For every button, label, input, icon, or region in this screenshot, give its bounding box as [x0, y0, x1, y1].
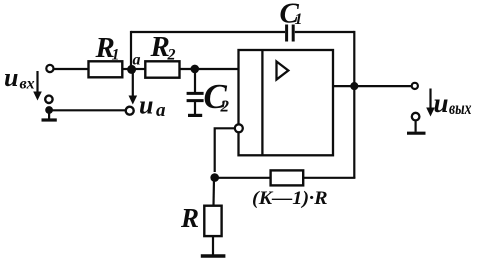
label u_вх — [4, 63, 35, 93]
arrow: output direction — [426, 89, 435, 117]
ground: under C2 — [188, 102, 202, 115]
resistor (K-1)R — [252, 170, 328, 209]
arrow: input direction — [33, 71, 42, 101]
label u_a — [139, 91, 166, 122]
wire: R1 to node a — [122, 68, 128, 70]
wire: op-amp output — [333, 85, 411, 87]
svg-text:u: u — [434, 88, 449, 118]
svg-text:2: 2 — [167, 47, 176, 64]
wire: top feedback from node a to C1 left plate — [131, 31, 285, 33]
svg-text:2: 2 — [220, 97, 230, 116]
ground: output side — [407, 121, 426, 134]
svg-text:u: u — [139, 91, 153, 120]
svg-text:a: a — [133, 52, 141, 69]
wire: junction down to R — [212, 178, 215, 206]
wire: inverting input to bottom junction — [215, 128, 235, 172]
wire: lower rail to u_a terminal — [49, 109, 125, 111]
wire: R2 to C2 node and on to op-amp input — [180, 68, 239, 70]
junction dot below input terminal — [45, 106, 53, 114]
label u_вых — [434, 88, 472, 118]
node a — [127, 52, 140, 74]
wire: C1 right plate to right feedback corner — [295, 31, 355, 33]
terminal: input lower open circle — [45, 96, 52, 103]
junction dot on output at feedback — [350, 82, 358, 90]
wire: input terminal to R1 — [54, 68, 89, 70]
terminal: output lower open circle — [412, 113, 420, 121]
terminal: output upper open circle — [412, 83, 418, 89]
junction dot at C2 top — [191, 65, 200, 74]
svg-text:R: R — [180, 203, 199, 233]
arrow: from node a down to u_a terminal — [129, 73, 138, 105]
wire: node a vertical up to feedback — [130, 31, 132, 69]
ground: input side — [42, 110, 57, 120]
op-amp gain triangle symbol — [277, 62, 289, 80]
inverting input open circle on op-amp — [235, 124, 243, 132]
svg-text:1: 1 — [295, 11, 303, 28]
op-amp U1 box — [239, 50, 334, 155]
wire: node a to R2 — [135, 68, 145, 70]
resistor R — [180, 203, 222, 236]
svg-text:u: u — [4, 63, 18, 92]
ground: under R — [201, 236, 226, 256]
capacitor C2 — [187, 69, 230, 116]
svg-text:a: a — [156, 100, 166, 121]
svg-text:вых: вых — [449, 98, 472, 118]
svg-text:1: 1 — [112, 47, 120, 64]
wire: right feedback vertical — [353, 31, 355, 178]
terminal: input upper open circle — [46, 65, 53, 72]
resistor R1 — [89, 32, 123, 77]
wire: junction to (K-1)R — [215, 177, 271, 179]
resistor R2 — [145, 31, 179, 78]
svg-text:вх: вх — [20, 76, 35, 93]
capacitor C1 — [280, 0, 303, 42]
wire: (K-1)R to right feedback vertical — [303, 177, 355, 179]
svg-text:(K—1)·R: (K—1)·R — [252, 189, 328, 209]
junction node at R / (K-1)R — [210, 173, 219, 182]
terminal: u_a open circle — [126, 107, 134, 115]
